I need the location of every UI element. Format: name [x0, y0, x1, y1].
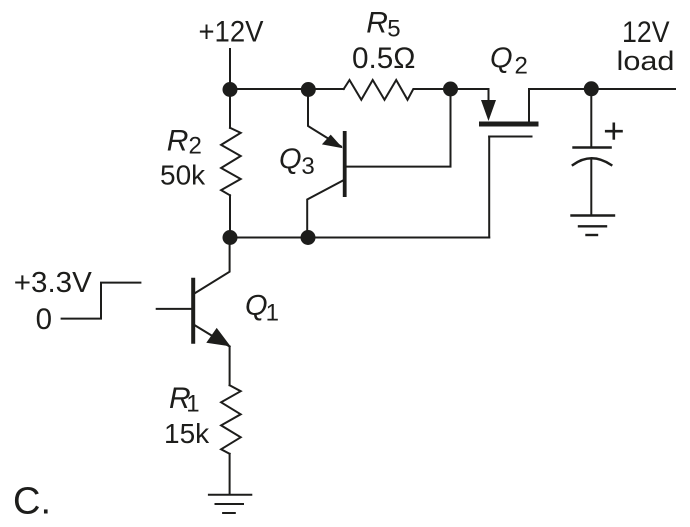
svg-text:+3.3V: +3.3V: [14, 267, 92, 299]
svg-text:2: 2: [189, 133, 202, 160]
svg-text:R: R: [366, 7, 388, 40]
svg-text:0.5Ω: 0.5Ω: [352, 42, 416, 75]
svg-text:5: 5: [387, 16, 400, 43]
svg-text:1: 1: [266, 299, 279, 326]
svg-text:+12V: +12V: [199, 16, 264, 49]
svg-text:Q: Q: [279, 143, 302, 175]
svg-text:3: 3: [301, 153, 314, 180]
svg-text:load: load: [617, 46, 675, 76]
svg-text:12V: 12V: [622, 16, 670, 49]
svg-text:Q: Q: [245, 290, 268, 322]
svg-text:C.: C.: [13, 481, 51, 523]
svg-text:R: R: [167, 125, 189, 158]
svg-text:0: 0: [36, 303, 52, 336]
svg-text:2: 2: [515, 53, 528, 80]
svg-text:1: 1: [186, 391, 199, 418]
svg-text:50k: 50k: [160, 160, 206, 191]
svg-text:15k: 15k: [164, 418, 210, 449]
svg-text:Q: Q: [490, 43, 513, 75]
